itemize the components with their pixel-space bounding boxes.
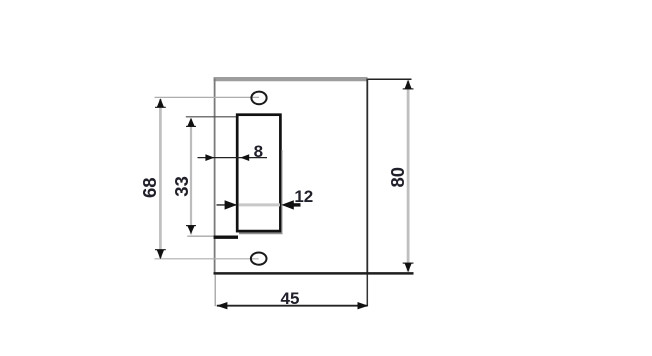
svg-text:80: 80 [387, 167, 408, 188]
svg-text:68: 68 [139, 177, 160, 198]
svg-text:33: 33 [171, 176, 192, 197]
svg-text:8: 8 [254, 142, 263, 161]
svg-text:12: 12 [294, 187, 313, 206]
svg-text:45: 45 [281, 289, 300, 308]
